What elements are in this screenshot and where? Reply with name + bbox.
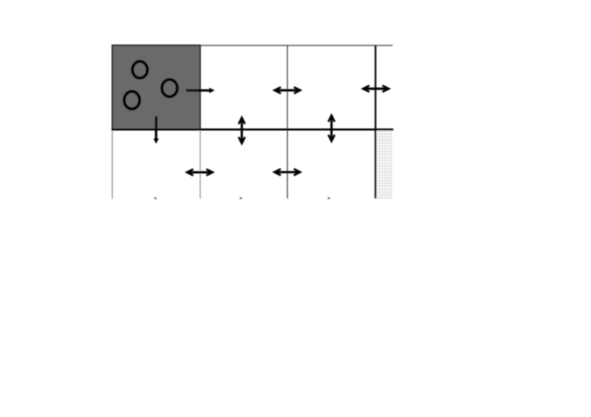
dispersal double arrow A5 <box>328 115 334 141</box>
dispersal double arrow A3 <box>363 86 389 92</box>
dispersal double arrow A2 <box>275 87 301 93</box>
top grid line <box>112 44 393 46</box>
occupied habitat patch cell (gray) <box>112 45 200 129</box>
emigration arrow down (single) <box>153 116 158 144</box>
cut-off arrow tip dot 2 <box>240 197 242 199</box>
left grid line (lower, light) <box>111 130 113 199</box>
dispersal double arrow A8 <box>274 169 300 175</box>
individual circle 1 <box>132 61 147 78</box>
cut-off arrow tip dot 3 <box>328 197 330 199</box>
column line x=200 (lower half) <box>199 130 201 199</box>
dispersal double arrow A4 <box>239 118 245 144</box>
individual circle 3 <box>162 80 177 97</box>
cut-off next column line stub <box>392 128 393 130</box>
row divider thick black line <box>112 129 393 131</box>
cut-off arrow tip dot 1 <box>154 197 156 199</box>
fine-grid matrix cell (hatched) <box>377 131 393 199</box>
column line x=375.5 (thick) <box>375 45 377 198</box>
emigration arrow right (single) <box>186 88 215 93</box>
dispersal double arrow A7 <box>187 169 213 175</box>
individual circle 2 <box>124 91 139 109</box>
column line x=287 <box>286 45 288 199</box>
